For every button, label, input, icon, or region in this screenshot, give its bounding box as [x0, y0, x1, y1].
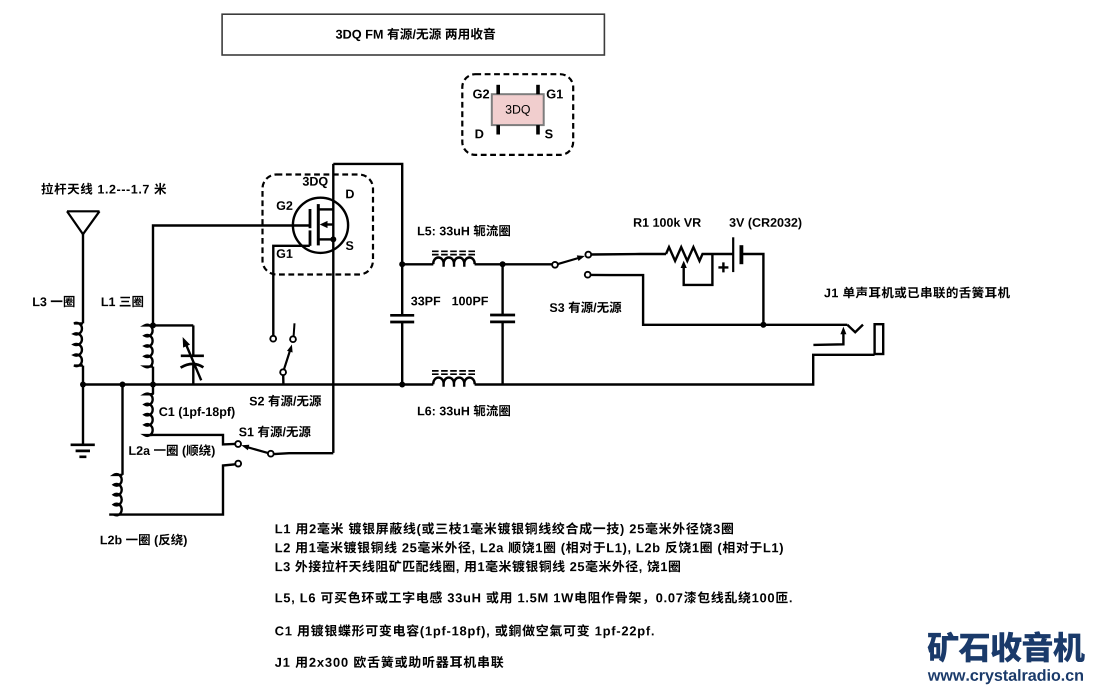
capacitor C1 (variable) [192, 325, 194, 355]
inductor L1 [145, 325, 153, 367]
jack J1 label [824, 286, 1010, 298]
inductor L2a [145, 385, 236, 445]
pin G2 [496, 85, 500, 94]
transistor Q1 (dual-gate MOSFET) [293, 198, 348, 253]
switch S1 label [239, 426, 311, 438]
node bus L2b [120, 382, 126, 388]
pin label G1 [277, 249, 293, 258]
antenna label [41, 183, 166, 195]
pin G1 [536, 85, 540, 94]
pin S [536, 125, 540, 134]
inductor L6 [433, 378, 474, 387]
battery BT1 minus plate [740, 245, 744, 264]
node S junction [330, 236, 336, 242]
battery BT1 3V plus plate [732, 237, 734, 272]
inductor L5 [402, 263, 433, 265]
C1 value label [159, 407, 234, 419]
antenna [67, 211, 100, 234]
L6 core [432, 371, 476, 374]
jack J1 sleeve [875, 324, 884, 354]
watermark logo [928, 631, 1085, 662]
switch S3 [552, 262, 558, 268]
capacitor 33PF [401, 264, 403, 315]
inductor L5 label [418, 225, 510, 237]
wire S1 to S riser [274, 452, 333, 455]
inductor L6 label [418, 405, 510, 417]
drain stub [318, 208, 333, 210]
source stub [318, 238, 333, 240]
wire L1 bottom to bus [152, 367, 154, 385]
pin label S [346, 241, 353, 250]
ground [71, 445, 95, 457]
node output junction [760, 322, 766, 328]
switch S3 label [550, 301, 622, 313]
node bus L3 [80, 382, 86, 388]
pin label G2 [277, 201, 293, 210]
package body 3DQ [492, 94, 544, 125]
wire S3 lower to output [591, 275, 848, 325]
inductor L2a label [129, 444, 214, 457]
transistor Q1 label 3DQ [303, 177, 328, 188]
gate bar G1 [309, 230, 312, 245]
inductor L1 label [102, 296, 143, 307]
wire L3 to ground [82, 366, 84, 445]
title block [222, 14, 604, 55]
C1 adjust arrow [186, 344, 202, 381]
pin label D [346, 190, 354, 199]
node tank top left [399, 261, 405, 267]
notes [276, 522, 733, 536]
gate bar G2 [309, 209, 312, 228]
wire G1 to S2 [273, 246, 310, 336]
R1 wiper [684, 254, 713, 285]
resistor R1 (potentiometer) [666, 247, 733, 261]
jack J1 ring contact with arrow [813, 332, 843, 345]
transistor Q1 dashed box [263, 175, 374, 275]
wire L1 top to C1 [153, 324, 193, 326]
pin D [496, 125, 500, 134]
package label 3DQ [506, 105, 530, 116]
switch S1 [235, 441, 241, 447]
wire S1 lower contact to L2b [109, 464, 235, 514]
wire D/S riser [332, 164, 334, 453]
switch S2 [270, 336, 276, 342]
wire drain top to tank [333, 164, 402, 264]
substrate arrow [326, 223, 333, 225]
IC package U1 3DQ pinout [462, 74, 573, 155]
wire S3 to R1 [591, 253, 666, 256]
wire battery to output node [741, 254, 763, 325]
jack J1 tip contact [847, 325, 863, 333]
switch S2 label [250, 395, 322, 407]
node bus L1 [150, 382, 156, 388]
node tank top right [500, 261, 506, 267]
inductor L3 [74, 323, 83, 366]
resistor R1 label [634, 218, 701, 227]
wire antenna to L3 [82, 233, 84, 323]
capacitor 100PF [501, 264, 503, 314]
node L1 top junction [150, 322, 156, 328]
inductor L2b label [101, 534, 187, 547]
inductor L2b [121, 385, 123, 475]
channel bar [317, 204, 320, 245]
capacitor labels [411, 297, 440, 306]
battery plus sign [718, 262, 728, 272]
wire G2 riser: L1 top to gate G2 [153, 226, 310, 326]
bus wire (ground rail) [83, 355, 875, 385]
L5 core [432, 251, 476, 254]
battery label [729, 218, 801, 230]
inductor L3 label [33, 296, 74, 307]
node bus L6 [399, 382, 405, 388]
